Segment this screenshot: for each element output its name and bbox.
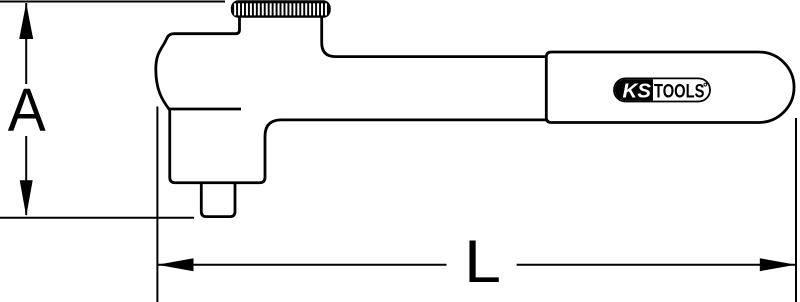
- dimension line L (left segment): [157, 264, 446, 266]
- extension line: left (L dimension, head left level): [156, 107, 158, 302]
- knurling stripes on knob: [234, 3, 327, 15]
- head step line (head/shaft ledge): [169, 108, 241, 111]
- ratchet head outline (left neck, head top, curved left cheek, square body): [156, 16, 547, 183]
- KS Tools logo pill outline: [614, 78, 710, 101]
- dimension line A (lower segment): [25, 136, 27, 215]
- KS Tools logo registered mark: [704, 83, 707, 86]
- arrowhead up (A dimension): [19, 3, 33, 39]
- arrowhead down (A dimension): [20, 180, 33, 216]
- svg-text:KS: KS: [623, 80, 652, 103]
- dimension line A (upper segment): [25, 3, 27, 84]
- extension line: bottom of tool (A dimension, peg-bottom level): [0, 217, 194, 219]
- insulated handle: [546, 52, 794, 123]
- svg-text:TOOLS: TOOLS: [654, 81, 704, 102]
- extension line: right (L dimension, handle tip level): [795, 118, 797, 302]
- extension line: top of tool (A dimension, knob-top level): [0, 1, 225, 3]
- right neck and shaft top line: [322, 16, 547, 57]
- arrowhead left (L dimension): [158, 258, 194, 271]
- svg-text:L: L: [464, 228, 501, 295]
- KS Tools logo black field: [615, 79, 653, 100]
- knurled adjusting knob body: [231, 0, 331, 18]
- dimension line L (right segment): [517, 264, 796, 266]
- svg-text:A: A: [8, 76, 46, 144]
- square drive peg: [201, 183, 235, 217]
- arrowhead right (L dimension): [760, 258, 796, 271]
